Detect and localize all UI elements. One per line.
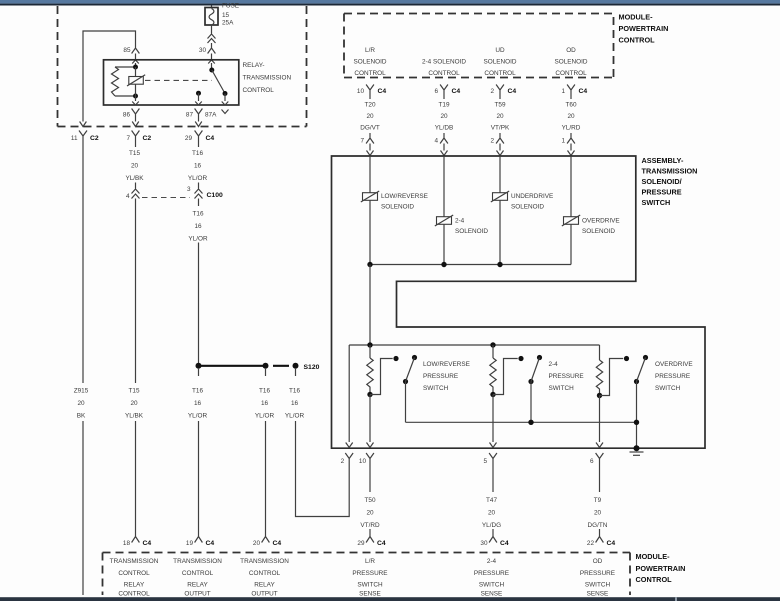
pin 87 connector — [186, 109, 203, 120]
svg-text:C4: C4 — [500, 540, 509, 547]
module-powertrain control label (top) — [619, 13, 669, 45]
svg-text:OD: OD — [593, 558, 603, 565]
dashed box: module-powertrain control (top) — [344, 14, 614, 78]
pin 87A stub connector — [205, 110, 229, 119]
svg-text:LOW/REVERSE: LOW/REVERSE — [423, 361, 470, 368]
svg-text:SOLENOID: SOLENOID — [381, 204, 414, 211]
svg-text:SOLENOID: SOLENOID — [511, 204, 544, 211]
svg-text:OVERDRIVE: OVERDRIVE — [655, 361, 693, 368]
svg-text:SOLENOID: SOLENOID — [455, 228, 488, 235]
wire label T9 20 DG/TN — [588, 497, 608, 529]
label OD pressure switch sense — [580, 558, 615, 598]
svg-text:YL/OR: YL/OR — [255, 413, 275, 420]
dashed box: module-powertrain control (bottom) — [103, 553, 631, 596]
svg-text:30: 30 — [480, 540, 488, 547]
wire label T60 20 YL/RD — [562, 96, 581, 132]
solenoid common bus — [370, 264, 571, 266]
label 2-4 pressure switch sense — [474, 558, 509, 598]
svg-text:T16: T16 — [289, 388, 300, 395]
svg-text:MODULE-: MODULE- — [619, 13, 654, 22]
svg-text:5: 5 — [483, 458, 487, 465]
assembly label — [642, 156, 698, 207]
connector C100 pin 4 — [126, 189, 140, 200]
svg-text:29: 29 — [357, 540, 365, 547]
svg-text:20: 20 — [488, 510, 496, 517]
svg-text:FUSE: FUSE — [222, 3, 239, 10]
svg-text:CONTROL: CONTROL — [118, 570, 150, 577]
svg-text:YL/OR: YL/OR — [188, 175, 208, 182]
svg-text:YL/DB: YL/DB — [435, 125, 453, 132]
svg-text:T16: T16 — [192, 388, 203, 395]
svg-text:PRESSURE: PRESSURE — [549, 373, 584, 380]
wire T16 to C100 — [198, 183, 200, 189]
svg-text:YL/BK: YL/BK — [125, 413, 144, 420]
switch sense bus — [406, 421, 637, 423]
svg-text:20: 20 — [366, 113, 374, 120]
wire: battery feed to fuse — [211, 6, 213, 8]
svg-text:30: 30 — [199, 47, 207, 54]
svg-text:20: 20 — [131, 163, 139, 170]
svg-text:YL/OR: YL/OR — [188, 236, 208, 243]
svg-text:SOLENOID: SOLENOID — [353, 59, 386, 66]
wire: 87 to dashed edge — [195, 120, 202, 127]
wire label T20 20 DG/VT — [360, 96, 380, 132]
resistor R2 (2-4 pressure switch) — [490, 345, 496, 395]
dashed connector C100 line — [142, 197, 190, 199]
svg-text:CONTROL: CONTROL — [182, 570, 214, 577]
fuse label — [222, 3, 239, 27]
svg-text:CONTROL: CONTROL — [636, 575, 673, 584]
svg-text:S120: S120 — [304, 364, 320, 371]
svg-text:85: 85 — [123, 47, 131, 54]
svg-text:YL/OR: YL/OR — [285, 413, 305, 420]
svg-text:16: 16 — [194, 163, 202, 170]
svg-text:16: 16 — [261, 400, 269, 407]
wire label T15 20 YL/BK — [125, 150, 144, 182]
svg-text:T50: T50 — [364, 497, 375, 504]
svg-text:T60: T60 — [565, 102, 576, 109]
svg-text:29: 29 — [185, 135, 193, 142]
resistor R3 (overdrive pressure switch) — [596, 345, 602, 396]
svg-text:2-4: 2-4 — [487, 558, 497, 565]
svg-text:YL/OR: YL/OR — [188, 413, 208, 420]
svg-text:CONTROL: CONTROL — [555, 70, 587, 77]
wire: supply bus left drop to pin 2 — [346, 345, 353, 448]
svg-text:SWITCH: SWITCH — [423, 385, 449, 392]
connector C4 pin 30 — [480, 532, 509, 548]
wire T15 to C100 — [135, 183, 137, 189]
svg-text:1: 1 — [561, 88, 565, 95]
wire label T16 16 YL/OR (col pin2) — [285, 388, 305, 420]
relay coil resistor — [112, 67, 136, 96]
solenoid L3: underdrive solenoid — [491, 156, 553, 265]
svg-text:20: 20 — [130, 400, 138, 407]
connector C4 pin 18 — [123, 532, 152, 548]
svg-text:T9: T9 — [594, 497, 602, 504]
svg-text:T15: T15 — [129, 150, 140, 157]
node: bus junction resistor 1 — [367, 342, 372, 347]
svg-text:YL/RD: YL/RD — [562, 125, 581, 132]
label 2-4 pressure switch — [549, 361, 584, 392]
svg-text:20: 20 — [496, 113, 504, 120]
svg-text:1: 1 — [561, 138, 565, 145]
svg-text:SOLENOID: SOLENOID — [582, 228, 615, 235]
connector C4 pin 20 — [253, 532, 282, 548]
label transmission control relay output (20) — [240, 558, 289, 598]
svg-text:PRESSURE: PRESSURE — [423, 373, 458, 380]
wire to 20 C4 lower — [265, 421, 267, 532]
label L/R pressure switch sense — [352, 558, 387, 598]
svg-text:C4: C4 — [377, 540, 386, 547]
wire to 29 C4 — [369, 529, 371, 532]
svg-text:T16: T16 — [192, 211, 203, 218]
svg-text:2-4: 2-4 — [455, 218, 465, 225]
svg-text:SWITCH: SWITCH — [642, 198, 671, 207]
assembly pin 2 — [341, 453, 353, 467]
svg-text:SWITCH: SWITCH — [357, 581, 383, 588]
svg-text:20: 20 — [77, 400, 85, 407]
svg-text:SOLENOID/: SOLENOID/ — [642, 177, 682, 186]
connector C4 pin 1 — [561, 85, 587, 97]
wire from S120 to switch assembly pin 2 — [295, 369, 297, 376]
node: bus junction resistor 2 — [490, 342, 495, 347]
wire label T47 20 YL/DG — [482, 497, 501, 529]
svg-text:OVERDRIVE: OVERDRIVE — [582, 218, 620, 225]
svg-text:C4: C4 — [607, 540, 616, 547]
relay coil element — [127, 67, 145, 96]
wire: 86 out of relay — [132, 96, 139, 105]
svg-text:BK: BK — [77, 413, 86, 420]
wire label T16 16 YL/OR (col 19) — [188, 388, 208, 420]
solenoid L2: 2-4 solenoid — [435, 156, 489, 265]
assembly pin 5 — [483, 453, 496, 467]
svg-text:CONTROL: CONTROL — [354, 70, 386, 77]
label transmission control relay control — [110, 558, 159, 598]
pressure switch supply bus — [349, 344, 599, 346]
svg-text:CONTROL: CONTROL — [484, 70, 516, 77]
connector C2 pin 7 — [126, 131, 151, 143]
wire: fuse to in-line connector — [211, 25, 213, 34]
wire from S120 to 19 C4 — [198, 369, 200, 376]
wire Z915 20 BK (left run) — [82, 142, 84, 383]
solenoid L1: low/reverse solenoid — [361, 156, 428, 265]
svg-text:20: 20 — [594, 510, 602, 517]
svg-text:SOLENOID: SOLENOID — [554, 59, 587, 66]
wire label T19 20 YL/DB — [435, 96, 453, 132]
svg-text:POWERTRAIN: POWERTRAIN — [636, 564, 686, 573]
wire: 87 out of relay — [195, 93, 202, 105]
wire: 86 to dashed edge — [132, 120, 139, 127]
svg-text:CONTROL: CONTROL — [243, 87, 275, 94]
node: bus junction UD — [497, 262, 502, 267]
wire pin 5 down — [492, 467, 494, 492]
ground (case ground on assembly) — [630, 445, 644, 455]
assembly pin 6 — [590, 453, 603, 467]
svg-text:TRANSMISSION: TRANSMISSION — [173, 558, 222, 565]
svg-text:TRANSMISSION: TRANSMISSION — [642, 167, 698, 176]
connector C100 pin 3 — [187, 186, 223, 199]
svg-text:UD: UD — [495, 47, 505, 54]
wire Z915 lower run — [82, 421, 84, 595]
pin 30 connector — [199, 43, 216, 54]
svg-text:86: 86 — [123, 112, 131, 119]
connector C4 pin 29 — [357, 532, 386, 548]
resistor R1 (L/R pressure switch) — [367, 345, 373, 395]
svg-text:20: 20 — [567, 113, 575, 120]
wire: R3 to pin 6 — [596, 396, 603, 448]
wire jog to assembly pin 2 — [296, 421, 350, 517]
svg-text:T20: T20 — [364, 102, 375, 109]
wire T16 run to splice — [198, 243, 200, 364]
svg-text:RELAY-: RELAY- — [243, 62, 265, 69]
label OD solenoid control — [554, 47, 587, 77]
svg-text:DG/TN: DG/TN — [588, 522, 608, 529]
svg-text:2: 2 — [490, 88, 494, 95]
wire label T15 20 YL/BK lower — [125, 388, 144, 420]
wire to 19 C4 lower — [198, 421, 200, 532]
label 2-4 solenoid control — [422, 59, 466, 78]
wire: pin 85 into relay — [132, 54, 139, 68]
svg-text:2: 2 — [490, 138, 494, 145]
relay switch arm — [212, 70, 225, 94]
wire: pin 30 into relay — [208, 54, 215, 71]
node: sense bus junction SW3 — [634, 420, 639, 425]
in-line connector below fuse (double chevron) — [208, 34, 216, 43]
svg-text:PRESSURE: PRESSURE — [580, 570, 615, 577]
wire from S120 to 20 C4 — [265, 369, 267, 376]
wire pin 6 down — [599, 467, 601, 492]
wire T16 stub below 29 C4 — [198, 142, 200, 147]
svg-text:CONTROL: CONTROL — [619, 36, 656, 45]
svg-text:PRESSURE: PRESSURE — [642, 188, 682, 197]
node: bus junction 2-4 — [441, 262, 446, 267]
svg-text:C4: C4 — [378, 88, 387, 95]
svg-text:10: 10 — [359, 458, 367, 465]
svg-text:16: 16 — [194, 223, 202, 230]
svg-text:87A: 87A — [205, 112, 217, 119]
pin 7 connector into assembly — [360, 133, 373, 156]
svg-text:SWITCH: SWITCH — [479, 581, 505, 588]
label UD solenoid control — [483, 47, 516, 77]
svg-text:T16: T16 — [192, 150, 203, 157]
svg-text:7: 7 — [360, 138, 364, 145]
svg-text:T47: T47 — [486, 497, 497, 504]
overdrive pressure switch SW3 — [600, 355, 649, 448]
svg-text:C100: C100 — [207, 192, 223, 199]
svg-text:T16: T16 — [259, 388, 270, 395]
node: R2 bottom junction — [490, 392, 495, 397]
assembly-transmission solenoid/pressure switch box — [332, 156, 706, 448]
svg-text:CONTROL: CONTROL — [118, 591, 150, 598]
wire: coil feed loop 85 to 11 C2 — [80, 31, 136, 127]
svg-text:20: 20 — [440, 113, 448, 120]
svg-text:SENSE: SENSE — [481, 591, 503, 598]
svg-text:YL/DG: YL/DG — [482, 522, 501, 529]
svg-text:CONTROL: CONTROL — [428, 70, 460, 77]
svg-text:7: 7 — [126, 135, 130, 142]
svg-text:C4: C4 — [206, 540, 215, 547]
connector C4 pin 6 — [434, 85, 460, 97]
svg-text:PRESSURE: PRESSURE — [655, 373, 690, 380]
svg-text:TRANSMISSION: TRANSMISSION — [240, 558, 289, 565]
svg-text:OD: OD — [566, 47, 576, 54]
relay switch pivot node — [209, 68, 214, 73]
wire to 30 C4 — [492, 529, 494, 532]
svg-text:20: 20 — [366, 510, 374, 517]
svg-text:Z915: Z915 — [74, 388, 89, 395]
solenoid L4: overdrive solenoid — [562, 156, 620, 265]
dashed actuator link — [145, 79, 212, 81]
svg-text:T59: T59 — [494, 102, 505, 109]
node: R3 bottom junction — [597, 393, 602, 398]
svg-text:18: 18 — [123, 540, 131, 547]
node: contact 87 — [196, 91, 201, 96]
svg-text:SENSE: SENSE — [587, 591, 609, 598]
svg-text:PRESSURE: PRESSURE — [352, 570, 387, 577]
svg-text:SWITCH: SWITCH — [655, 385, 681, 392]
svg-text:22: 22 — [587, 540, 595, 547]
pin 86 connector — [123, 109, 140, 120]
svg-text:L/R: L/R — [365, 558, 375, 565]
svg-text:2-4 SOLENOID: 2-4 SOLENOID — [422, 59, 466, 66]
label overdrive pressure switch — [655, 361, 693, 392]
svg-text:PRESSURE: PRESSURE — [474, 570, 509, 577]
wire T16 16 YL/OR stub below C100 — [198, 199, 200, 207]
connector C4 pin 22 — [587, 532, 616, 548]
wire: 87A stub out of relay — [222, 94, 229, 106]
svg-text:DG/VT: DG/VT — [360, 125, 380, 132]
assembly pin 10 — [359, 453, 374, 467]
wire T15 20 YL/BK upper stub — [135, 142, 137, 147]
svg-text:YL/BK: YL/BK — [125, 175, 144, 182]
label low/reverse pressure switch — [423, 361, 470, 392]
svg-text:T15: T15 — [128, 388, 139, 395]
svg-text:25A: 25A — [222, 20, 234, 27]
svg-text:C2: C2 — [143, 135, 152, 142]
node: bus junction L/R — [367, 262, 372, 267]
svg-text:2-4: 2-4 — [549, 361, 559, 368]
svg-text:CONTROL: CONTROL — [249, 570, 281, 577]
bottom window bar — [0, 597, 780, 601]
pin 85 connector — [123, 43, 139, 54]
pin 4 connector into assembly — [434, 133, 447, 156]
wire T15 bottom run — [135, 421, 137, 532]
relay R1: transmission control relay box — [104, 60, 239, 105]
label transmission control relay output (19) — [173, 558, 222, 598]
wire pin 10 down — [369, 467, 371, 492]
2-4 pressure switch SW2 — [493, 355, 542, 422]
svg-text:C4: C4 — [206, 135, 215, 142]
svg-text:SOLENOID: SOLENOID — [483, 59, 516, 66]
svg-text:OUTPUT: OUTPUT — [251, 591, 277, 598]
svg-text:LOW/REVERSE: LOW/REVERSE — [381, 193, 428, 200]
connector C4 pin 29 — [185, 131, 215, 143]
svg-text:20: 20 — [253, 540, 261, 547]
connector C4 pin 10 — [357, 85, 387, 97]
svg-text:2: 2 — [341, 458, 345, 465]
connector C2 pin 11 — [71, 131, 99, 143]
svg-text:SWITCH: SWITCH — [585, 581, 611, 588]
wire label T59 20 VT/PK — [491, 96, 510, 132]
svg-text:TRANSMISSION: TRANSMISSION — [243, 75, 292, 82]
wire label T16 16 YL/OR (upper) — [188, 150, 208, 182]
wire to 22 C4 — [599, 529, 601, 532]
svg-text:C4: C4 — [508, 88, 517, 95]
node: coil top junction — [133, 65, 138, 70]
svg-text:T19: T19 — [438, 102, 449, 109]
svg-text:POWERTRAIN: POWERTRAIN — [619, 24, 669, 33]
pin 1 connector into assembly — [561, 133, 574, 156]
connector C4 pin 2 — [490, 85, 516, 97]
svg-text:C2: C2 — [90, 135, 99, 142]
label L/R solenoid control — [353, 47, 386, 77]
svg-text:C4: C4 — [143, 540, 152, 547]
svg-text:RELAY: RELAY — [254, 581, 275, 588]
svg-text:3: 3 — [187, 186, 191, 193]
svg-text:UNDERDRIVE: UNDERDRIVE — [511, 193, 553, 200]
wire: solenoid bus down to pressure switch bus — [369, 265, 371, 346]
wire: R1 to pin 10 — [367, 395, 374, 448]
wire label T50 20 VT/RD — [360, 497, 380, 529]
svg-text:VT/RD: VT/RD — [360, 522, 380, 529]
svg-text:TRANSMISSION: TRANSMISSION — [110, 558, 159, 565]
pin 2 connector into assembly — [490, 133, 503, 156]
svg-text:MODULE-: MODULE- — [636, 552, 671, 561]
svg-text:SWITCH: SWITCH — [549, 385, 575, 392]
node: sense bus junction SW2 — [528, 420, 533, 425]
svg-text:10: 10 — [357, 88, 365, 95]
svg-text:16: 16 — [194, 400, 202, 407]
wire T15 long run to TCM — [135, 199, 137, 384]
svg-text:ASSEMBLY-: ASSEMBLY- — [642, 156, 684, 165]
wire label T16 16 YL/OR — [188, 211, 208, 243]
svg-text:RELAY: RELAY — [124, 581, 145, 588]
svg-text:4: 4 — [434, 138, 438, 145]
svg-text:OUTPUT: OUTPUT — [184, 591, 210, 598]
svg-text:4: 4 — [126, 193, 130, 200]
svg-text:6: 6 — [434, 88, 438, 95]
svg-text:L/R: L/R — [365, 47, 375, 54]
svg-text:VT/PK: VT/PK — [491, 125, 510, 132]
low/reverse pressure switch SW1 — [370, 355, 417, 422]
svg-text:C4: C4 — [273, 540, 282, 547]
svg-text:87: 87 — [186, 112, 194, 119]
splice S120 — [196, 363, 320, 371]
dashed box: relay/fuse power area (top-left) — [58, 6, 307, 127]
svg-text:6: 6 — [590, 458, 594, 465]
svg-text:19: 19 — [186, 540, 194, 547]
node: coil bottom junction — [133, 94, 138, 99]
svg-text:11: 11 — [71, 135, 78, 142]
module-powertrain control label (bottom) — [636, 552, 686, 584]
svg-text:16: 16 — [291, 400, 299, 407]
wire label T16 16 YL/OR (col 20) — [255, 388, 275, 420]
top window bar — [0, 0, 780, 6]
svg-text:C4: C4 — [579, 88, 588, 95]
fuse 15 25A — [205, 8, 218, 26]
relay label — [243, 62, 292, 94]
node: R1 bottom junction — [367, 392, 372, 397]
svg-text:RELAY: RELAY — [187, 581, 208, 588]
connector C4 pin 19 — [186, 532, 215, 548]
svg-text:SENSE: SENSE — [359, 591, 381, 598]
svg-text:C4: C4 — [452, 88, 461, 95]
wire label Z915 20 BK — [74, 388, 89, 420]
svg-text:15: 15 — [222, 12, 230, 19]
wire: R2 to pin 5 — [490, 395, 497, 448]
node: contact 87A — [223, 91, 228, 96]
